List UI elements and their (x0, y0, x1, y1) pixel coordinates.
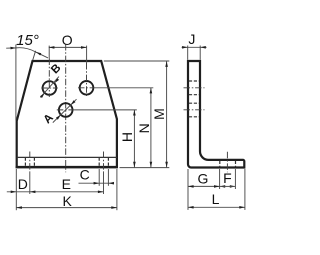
hole A (59, 103, 73, 117)
side view hidden hole lines (upper hole) (189, 80, 199, 82)
front view flange top edge line (17, 156, 117, 158)
dimension G (188, 185, 220, 187)
side flange hole hidden edges (219, 161, 221, 167)
bottom extension line for H N M (120, 167, 170, 169)
dimension D and E line (7, 191, 104, 193)
side view upper hole centerline (184, 87, 205, 89)
svg-text:D: D (18, 176, 28, 192)
dimension L (188, 206, 245, 208)
flange hole right hidden edges (98, 158, 100, 167)
hole A horizontal centerline + H extension (57, 109, 75, 111)
flange hole right edge extensions for C (98, 169, 100, 186)
15 degree angle dimension (15, 45, 17, 121)
side view hidden hole lines (hole A) (189, 102, 199, 104)
svg-text:C: C (80, 166, 90, 182)
dimension C (79, 182, 114, 184)
front view plate outline (17, 61, 117, 167)
hole right vertical centerline / O extension (86, 46, 88, 63)
plate vertical centerline (65, 44, 67, 172)
hole B horizontal centerline (41, 87, 58, 89)
svg-text:L: L (212, 191, 220, 207)
right bottom extension line (116, 169, 118, 210)
side view L-bracket outline (188, 61, 244, 168)
hole right (second B hole) (80, 81, 94, 95)
top edge extension line for M (104, 60, 170, 62)
svg-text:M: M (151, 108, 167, 120)
flange hole left centerline (29, 152, 31, 172)
side right extension line (244, 169, 246, 210)
svg-text:15°: 15° (16, 32, 39, 49)
dimension O (49, 46, 87, 48)
front view bottom edge (flange bottom, thick) (16, 166, 118, 168)
svg-text:G: G (197, 170, 208, 186)
side flange hole edge extensions for F (219, 169, 221, 189)
hole B (43, 81, 57, 95)
dimension N (150, 88, 152, 168)
svg-text:N: N (136, 123, 152, 133)
dimension M (166, 61, 168, 167)
flange hole right centerline (103, 152, 105, 172)
svg-text:J: J (188, 31, 195, 47)
svg-text:O: O (62, 32, 73, 48)
left bottom extension line (15, 169, 17, 210)
svg-text:F: F (223, 170, 232, 186)
dimension J (187, 46, 189, 60)
hole right horizontal centerline + N extension (78, 87, 96, 89)
dimension H (133, 110, 135, 167)
svg-text:H: H (119, 132, 135, 142)
svg-text:K: K (63, 193, 73, 209)
leader A line through hole with arrows (53, 99, 77, 122)
flange hole left hidden edges (24, 158, 26, 167)
side view hole A centerline (184, 109, 205, 111)
dimension F (220, 185, 226, 188)
side flange hole centerline (226, 152, 228, 173)
svg-text:E: E (62, 176, 71, 192)
leader B line through hole with arrows (40, 77, 59, 98)
hole B vertical centerline / O extension (48, 46, 50, 59)
dimension K (16, 207, 117, 209)
side left extension line (187, 169, 189, 210)
